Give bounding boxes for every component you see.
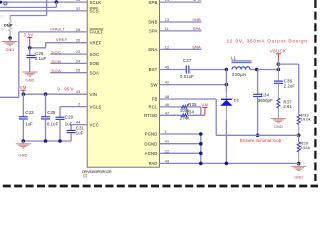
svg-text:SOB: SOB	[51, 59, 61, 64]
svg-text:274k: 274k	[180, 116, 190, 121]
svg-text:PAD: PAD	[149, 161, 158, 166]
svg-text:SNB: SNB	[148, 20, 157, 25]
svg-text:SOA: SOA	[51, 68, 61, 73]
svg-text:R34: R34	[186, 110, 195, 115]
svg-text:GND: GND	[5, 47, 14, 52]
svg-text:0.01uF: 0.01uF	[180, 74, 194, 79]
svg-text:DRV8353RSRGZR: DRV8353RSRGZR	[82, 169, 112, 174]
svg-text:SPB: SPB	[149, 0, 158, 5]
svg-text:C34: C34	[261, 92, 270, 97]
svg-text:RCL: RCL	[149, 105, 158, 110]
svg-text:VIN: VIN	[90, 92, 98, 97]
svg-text:10.0k: 10.0k	[301, 116, 311, 121]
svg-text:AGND: AGND	[145, 151, 158, 156]
svg-text:SPA: SPA	[149, 29, 158, 34]
svg-text:nFAULT: nFAULT	[50, 26, 65, 31]
svg-text:3600pF: 3600pF	[258, 98, 273, 103]
svg-text:1uF: 1uF	[25, 122, 33, 127]
svg-text:VM: VM	[20, 85, 27, 90]
svg-text:VGLS: VGLS	[90, 104, 102, 109]
svg-text:FB: FB	[152, 97, 158, 102]
svg-text:2.2uF: 2.2uF	[284, 84, 296, 89]
svg-text:SW: SW	[150, 82, 158, 87]
svg-text:SOC: SOC	[51, 50, 61, 55]
svg-text:D2: D2	[234, 98, 240, 103]
svg-text:0.1uF: 0.1uF	[35, 56, 47, 61]
svg-text:C29: C29	[65, 115, 74, 120]
svg-text:GND: GND	[294, 175, 303, 180]
svg-text:VREF: VREF	[56, 37, 68, 42]
svg-text:12.0V, 350mA Output Design: 12.0V, 350mA Output Design	[227, 38, 308, 43]
svg-text:SOA: SOA	[90, 70, 99, 75]
svg-text:2.61k: 2.61k	[300, 145, 310, 150]
svg-text:23: 23	[0, 15, 4, 19]
svg-text:VM: VM	[201, 102, 208, 107]
svg-text:0.1uF: 0.1uF	[47, 122, 59, 127]
svg-text:SCS: SCS	[90, 9, 99, 14]
svg-text:RT/SD: RT/SD	[144, 113, 157, 118]
svg-text:2.61: 2.61	[283, 104, 292, 109]
svg-text:Ensure minimal loop: Ensure minimal loop	[240, 138, 282, 143]
svg-text:330µH: 330µH	[232, 72, 247, 77]
svg-text:C37: C37	[183, 58, 192, 63]
svg-text:C33: C33	[25, 110, 34, 115]
svg-text:SOC: SOC	[90, 52, 100, 57]
svg-text:SNA: SNA	[148, 47, 157, 52]
svg-text:VCC: VCC	[90, 122, 99, 127]
svg-text:SNB: SNB	[192, 17, 201, 22]
svg-text:GND: GND	[26, 77, 35, 82]
svg-text:SCLK: SCLK	[90, 0, 102, 5]
svg-text:GND: GND	[274, 124, 283, 129]
svg-text:PGND: PGND	[145, 132, 158, 137]
svg-text:C31: C31	[76, 125, 85, 130]
svg-text:VREF: VREF	[90, 40, 102, 45]
svg-text:R35: R35	[188, 102, 197, 107]
svg-text:GND: GND	[18, 152, 27, 157]
svg-text:SNA: SNA	[192, 44, 201, 49]
svg-text:DGND: DGND	[144, 141, 157, 146]
svg-text:FAULT: FAULT	[90, 30, 104, 35]
svg-text:VBUCK: VBUCK	[270, 49, 286, 54]
svg-text:BST: BST	[149, 67, 158, 72]
svg-text:1uF: 1uF	[76, 131, 84, 136]
svg-text:C35: C35	[47, 110, 56, 115]
svg-text:SPB: SPB	[192, 0, 201, 2]
svg-text:SPA: SPA	[193, 26, 201, 31]
svg-text:1k: 1k	[0, 27, 4, 31]
svg-text:3.3V: 3.3V	[23, 33, 33, 38]
svg-text:9 - 95 V: 9 - 95 V	[57, 86, 73, 91]
svg-text:L1: L1	[231, 56, 237, 61]
svg-text:SOB: SOB	[90, 61, 99, 66]
svg-text:DNP: DNP	[4, 22, 13, 27]
